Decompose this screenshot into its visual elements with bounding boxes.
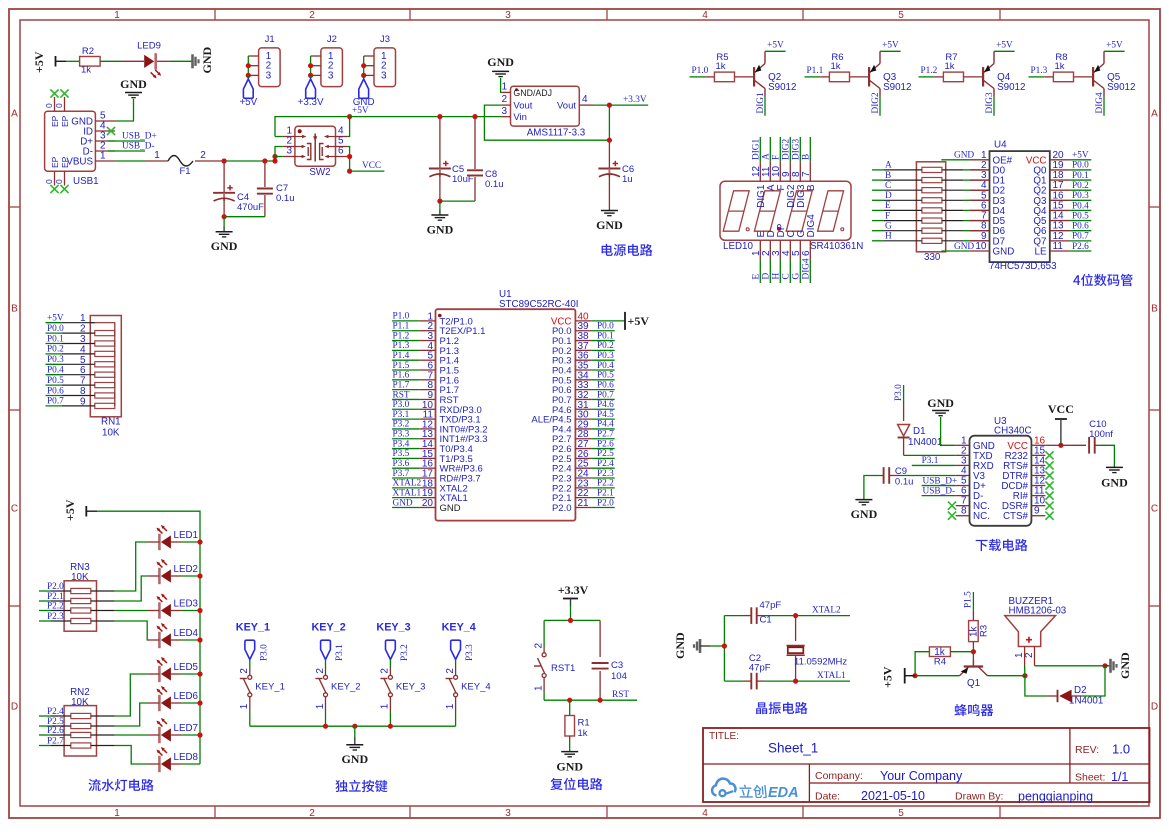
svg-text:P0.3: P0.3: [597, 351, 614, 361]
svg-text:Vin: Vin: [513, 112, 527, 123]
wire buzzer pin1 down: [1024, 666, 1026, 676]
svg-text:3: 3: [266, 70, 272, 81]
svg-text:B: B: [885, 171, 891, 181]
svg-text:+5V: +5V: [239, 97, 257, 108]
svg-text:R3: R3: [979, 625, 990, 637]
svg-text:2021-05-10: 2021-05-10: [861, 789, 925, 803]
resistor R8: [1053, 52, 1073, 82]
svg-text:S9012: S9012: [768, 82, 796, 93]
wire J2 pins to flag: [308, 56, 313, 79]
capacitor C8 (0.1u): [467, 117, 504, 202]
svg-text:J2: J2: [327, 34, 337, 45]
U1 right pin names: [531, 316, 571, 514]
net label P1.0 and wire: [690, 66, 709, 77]
wire ground to U3 pin1: [941, 417, 956, 445]
svg-text:P1.5: P1.5: [393, 361, 410, 371]
svg-text:NC.: NC.: [973, 511, 990, 522]
svg-text:1k: 1k: [715, 61, 725, 72]
svg-text:LED8: LED8: [174, 752, 199, 763]
svg-text:10K: 10K: [71, 697, 89, 708]
switch SW2: [283, 126, 348, 166]
svg-text:3: 3: [505, 808, 511, 819]
svg-text:D: D: [762, 273, 772, 280]
buzzer BUZZER1 HMB1206-03: [1005, 616, 1056, 666]
svg-text:USB_D-: USB_D-: [923, 486, 956, 496]
RN1 wires and net labels: [46, 313, 95, 407]
latch U4 74HC573D: [970, 151, 1070, 262]
MCU U1 STC89C52RC-40I: [420, 309, 591, 520]
svg-text:F1: F1: [179, 166, 190, 177]
svg-text:11.0592MHz: 11.0592MHz: [794, 657, 847, 668]
LED10 bottom pin stubs: [760, 240, 810, 259]
port flag +3.3V: [298, 79, 324, 108]
wire F1 to SW2 and caps: [195, 160, 224, 162]
svg-text:P2.3: P2.3: [47, 612, 64, 622]
caption crystal circuit: [756, 702, 807, 714]
svg-text:GND: GND: [954, 242, 974, 252]
title block: [703, 728, 1150, 802]
resistor R3: [969, 621, 990, 642]
svg-text:GND: GND: [993, 246, 1015, 257]
svg-text:HMB1206-03: HMB1206-03: [1009, 606, 1067, 617]
svg-text:DIG1: DIG1: [756, 92, 766, 114]
wire KEY_2 to ground bus: [325, 697, 327, 711]
svg-text:0.1u: 0.1u: [276, 193, 295, 204]
svg-text:2: 2: [315, 668, 326, 674]
svg-text:GND: GND: [1101, 476, 1128, 490]
svg-text:1/1: 1/1: [1111, 770, 1128, 784]
transistor Q1 (PNP horizontal): [960, 652, 988, 676]
wire LED1 cathode: [148, 541, 159, 543]
RST rail wire: [544, 699, 637, 701]
svg-text:6: 6: [338, 146, 344, 157]
svg-text:B: B: [806, 184, 817, 191]
svg-text:+5V: +5V: [63, 499, 77, 521]
svg-text:7: 7: [801, 171, 812, 177]
svg-text:Vout: Vout: [557, 101, 576, 112]
svg-text:LED9: LED9: [137, 41, 161, 52]
svg-text:8: 8: [80, 386, 86, 397]
RN2 right wires to LEDs: [91, 674, 148, 764]
transistor Q4 (S9012 PNP): [983, 51, 1015, 116]
svg-text:GND: GND: [927, 396, 954, 410]
refdes Q4: [997, 72, 1025, 93]
svg-text:+5V: +5V: [1106, 41, 1123, 51]
resistor R5: [714, 52, 734, 82]
svg-text:5: 5: [898, 10, 904, 21]
junction +3.3V top: [568, 618, 573, 623]
svg-text:P2.1: P2.1: [597, 488, 614, 498]
IC U3 CH340C: [956, 436, 1046, 526]
junction C5 at +5V rail: [437, 114, 442, 119]
ground flag above U3: [927, 396, 954, 416]
svg-text:P3.3: P3.3: [465, 644, 475, 661]
svg-text:D2: D2: [1074, 685, 1087, 696]
svg-text:USB_D+: USB_D+: [923, 476, 958, 486]
junction KEY_3 bus: [388, 724, 393, 729]
svg-text:GND: GND: [211, 239, 238, 253]
wire USB1 GND pin to ground: [115, 99, 134, 121]
svg-text:REV:: REV:: [1075, 744, 1099, 756]
svg-text:P1.0: P1.0: [393, 312, 410, 322]
svg-text:+5V: +5V: [47, 314, 64, 324]
svg-text:E: E: [752, 274, 762, 280]
header J1: [248, 34, 280, 87]
caption download circuit: [976, 539, 1028, 551]
svg-text:Drawn By:: Drawn By:: [955, 791, 1003, 803]
svg-text:20: 20: [422, 498, 434, 509]
ground flag above AMS1117: [487, 55, 514, 77]
svg-text:P2.0: P2.0: [47, 582, 64, 592]
svg-text:P3.1: P3.1: [393, 410, 410, 420]
svg-text:D1: D1: [913, 426, 926, 437]
330 left wires with labels A-H: [872, 161, 922, 242]
USB1 EP pins top: [44, 89, 70, 127]
svg-text:D: D: [11, 702, 18, 713]
svg-text:+5V: +5V: [882, 41, 899, 51]
svg-text:P0.2: P0.2: [47, 345, 64, 355]
svg-text:C: C: [782, 273, 792, 279]
svg-text:3: 3: [501, 106, 507, 117]
svg-text:GND: GND: [427, 223, 454, 237]
svg-text:A: A: [762, 153, 772, 160]
svg-text:XTAL1: XTAL1: [393, 488, 422, 498]
junction C8 at +5V rail: [472, 114, 477, 119]
svg-text:21: 21: [578, 498, 590, 509]
svg-text:LED6: LED6: [174, 691, 199, 702]
caption flowing LED: [88, 779, 153, 791]
no-connect X on U3 pin7: [948, 502, 956, 510]
svg-text:P1.0: P1.0: [692, 66, 709, 76]
USB1 pin names: [66, 117, 93, 168]
wire to resistor R6: [820, 76, 829, 78]
svg-text:P3.4: P3.4: [393, 439, 410, 449]
svg-text:Q1: Q1: [967, 678, 980, 689]
svg-text:3: 3: [381, 70, 387, 81]
ground under C6: [596, 211, 623, 233]
capacitor C6 (1u): [598, 140, 634, 210]
svg-text:XTAL2: XTAL2: [812, 606, 841, 616]
svg-text:+5V: +5V: [767, 41, 784, 51]
junction R3-R4 node: [971, 649, 976, 654]
refdes Q3: [883, 72, 911, 93]
svg-text:GND: GND: [954, 151, 974, 161]
LED10 top pin numbers: [751, 165, 812, 177]
resistor R7: [943, 52, 963, 82]
svg-text:P0.5: P0.5: [1072, 211, 1089, 221]
no-connect X marks on U3 right pins: [1045, 451, 1053, 520]
wire LED8 cathode: [148, 763, 159, 765]
svg-text:U4: U4: [994, 140, 1007, 151]
svg-text:P3.2: P3.2: [393, 420, 410, 430]
wire P3.0 to D1: [903, 402, 905, 421]
svg-text:P0.4: P0.4: [47, 366, 64, 376]
junction XTAL2: [793, 613, 798, 618]
svg-text:VCC: VCC: [1048, 402, 1074, 416]
port flag KEY_2 / P3.1: [321, 640, 345, 661]
svg-text:Company:: Company:: [815, 770, 863, 782]
svg-text:10K: 10K: [71, 572, 89, 583]
svg-text:GND/ADJ: GND/ADJ: [513, 88, 552, 98]
svg-text:STC89C52RC-40I: STC89C52RC-40I: [499, 299, 579, 310]
LED10 bottom pin names: [756, 214, 817, 238]
junction crystal gnd: [722, 643, 727, 648]
svg-text:SW2: SW2: [309, 167, 330, 178]
LED10 bottom wires: [760, 260, 810, 284]
svg-text:KEY_1: KEY_1: [236, 622, 270, 634]
svg-text:DIG4: DIG4: [1095, 92, 1105, 114]
svg-text:2: 2: [1024, 652, 1035, 658]
svg-text:2: 2: [309, 10, 315, 21]
svg-text:LED1: LED1: [174, 530, 199, 541]
svg-text:P0.3: P0.3: [47, 355, 64, 365]
svg-text:Your Company: Your Company: [880, 769, 963, 783]
svg-text:LED5: LED5: [174, 662, 199, 673]
svg-text:1: 1: [445, 703, 456, 709]
junction VCC node: [1058, 443, 1063, 448]
svg-text:8: 8: [961, 506, 967, 517]
transistor Q5 (S9012 PNP): [1093, 51, 1125, 116]
svg-text:10K: 10K: [102, 428, 120, 439]
svg-text:DIG3: DIG3: [985, 92, 995, 114]
svg-text:6: 6: [80, 365, 86, 376]
crystal X1 11.0592MHz: [787, 616, 805, 682]
svg-text:R2: R2: [82, 46, 94, 57]
wire C9 to U3 V3: [889, 474, 899, 476]
ground under key bus: [341, 726, 368, 766]
svg-text:GND: GND: [393, 498, 413, 508]
wire SW2 pin2 to VBUS rail: [275, 147, 283, 157]
svg-text:P1.4: P1.4: [393, 351, 410, 361]
switch KEY_3: [380, 668, 393, 710]
svg-text:P0.2: P0.2: [597, 341, 614, 351]
ground under R1: [556, 752, 583, 774]
power flag +5V at U1 pin 40: [591, 312, 649, 330]
resistor R1: [565, 700, 590, 751]
junction pin4 vout: [607, 103, 612, 108]
svg-text:P3.1: P3.1: [922, 456, 939, 466]
wire LED8 to bus: [171, 763, 181, 765]
wire C8 bottom to C5 bottom: [440, 200, 475, 202]
wire LED3 to bus: [171, 610, 181, 612]
svg-text:J1: J1: [265, 34, 275, 45]
svg-text:P1.5: P1.5: [964, 591, 974, 608]
svg-text:P0.4: P0.4: [597, 361, 614, 371]
svg-text:H: H: [772, 273, 782, 280]
junction at C7: [262, 158, 267, 163]
wire pin4 Vout to +3.3V: [593, 104, 648, 106]
svg-text:GND: GND: [200, 47, 214, 74]
junction KEY_2 bus: [323, 724, 328, 729]
svg-text:B: B: [802, 154, 812, 160]
svg-text:4: 4: [702, 10, 708, 21]
svg-text:DIG3: DIG3: [792, 138, 802, 160]
U4 right pin numbers: [1053, 150, 1065, 252]
svg-text:P0.1: P0.1: [1072, 171, 1089, 181]
svg-text:1: 1: [380, 703, 391, 709]
svg-text:GND: GND: [673, 632, 687, 659]
LED LED4: [156, 623, 198, 648]
svg-text:0.1u: 0.1u: [895, 477, 914, 488]
wire C2 to XTAL1: [757, 680, 764, 682]
caption power circuit: [602, 244, 653, 256]
U4 left pin numbers: [975, 150, 987, 252]
svg-text:P1.1: P1.1: [393, 322, 410, 332]
wire VCC out: [350, 170, 385, 172]
svg-text:1k: 1k: [830, 61, 840, 72]
capacitor C1 (47pF): [751, 600, 781, 626]
svg-text:0.1u: 0.1u: [485, 179, 504, 190]
resistor network RN 330: [916, 162, 945, 252]
svg-text:C: C: [1151, 504, 1158, 515]
wire +3.3V to RC node: [570, 606, 572, 620]
LED LED8: [156, 747, 198, 772]
wire buzzer node to D2: [1025, 676, 1048, 696]
wire +5V to LED bus: [97, 511, 200, 764]
svg-text:E: E: [885, 201, 891, 211]
svg-text:9: 9: [1034, 506, 1040, 517]
caption reset circuit: [550, 778, 602, 790]
svg-text:47pF: 47pF: [760, 600, 782, 611]
svg-text:P2.5: P2.5: [597, 449, 614, 459]
capacitor C5 (10uF): [429, 117, 474, 202]
net label P3.1 and wire RXD: [912, 456, 956, 466]
junction XTAL1: [793, 679, 798, 684]
wire flag to switch KEY_2: [325, 660, 327, 668]
LED10 top pin names: [756, 184, 817, 208]
EasyEDA logo: [712, 779, 799, 801]
U3 left pin numbers: [961, 435, 967, 516]
svg-text:1k: 1k: [1054, 61, 1064, 72]
svg-text:1: 1: [114, 10, 120, 21]
caption 4-digit display: [1073, 274, 1132, 286]
svg-text:KEY_2: KEY_2: [331, 682, 361, 693]
wire SW2 pins5,6 to VCC rail: [348, 147, 350, 172]
switch KEY_2: [315, 668, 328, 710]
junction LED5 bus: [197, 671, 202, 676]
svg-text:KEY_4: KEY_4: [442, 622, 476, 634]
svg-text:R1: R1: [578, 718, 590, 729]
svg-text:D: D: [1151, 702, 1158, 713]
svg-text:P0.6: P0.6: [47, 386, 64, 396]
U4 right wires and net labels: [1070, 151, 1091, 252]
no-connect X on USB1 ID pin: [107, 127, 115, 135]
svg-text:LED7: LED7: [174, 723, 199, 734]
wire LED3 cathode: [148, 610, 159, 612]
svg-text:KEY_1: KEY_1: [255, 682, 285, 693]
net label USB_D+ and wire: [108, 132, 157, 142]
display LED10 (SR410361N): [720, 181, 851, 240]
wire LED7 cathode: [148, 734, 159, 736]
svg-text:GND: GND: [851, 507, 878, 521]
svg-text:P2.4: P2.4: [47, 707, 64, 717]
330 right wires to U4: [942, 170, 990, 241]
svg-text:USB1: USB1: [73, 176, 99, 187]
no-connect X on U3 pin8: [948, 512, 956, 520]
LED10 bottom net labels E D H C G DIG4: [752, 258, 812, 280]
capacitor C7 (0.1u): [257, 161, 295, 217]
svg-text:2: 2: [309, 808, 315, 819]
svg-text:LED2: LED2: [174, 564, 199, 575]
svg-text:1: 1: [533, 685, 544, 691]
RN3 left wires and net labels: [39, 582, 71, 622]
svg-text:P2.0: P2.0: [597, 498, 614, 508]
capacitor C2 (47pF): [749, 653, 771, 689]
svg-text:+3.3V: +3.3V: [623, 95, 647, 105]
switch KEY_1: [239, 668, 252, 710]
svg-text:DIG1: DIG1: [752, 138, 762, 160]
ground under C10: [1101, 466, 1128, 490]
svg-text:P0.1: P0.1: [597, 331, 614, 341]
U4 left pin names: [993, 155, 1015, 257]
svg-text:3: 3: [328, 70, 334, 81]
svg-text:P1.7: P1.7: [393, 380, 410, 390]
svg-text:KEY_4: KEY_4: [461, 682, 491, 693]
wire R2 to LED9: [100, 60, 121, 62]
svg-text:GND: GND: [1118, 652, 1132, 679]
USB1 EP pins bottom: [44, 156, 70, 193]
svg-text:P0.5: P0.5: [47, 376, 64, 386]
svg-text:0: 0: [44, 103, 54, 108]
wire J3 pins to flag: [361, 56, 366, 79]
port flag KEY_4 / P3.3: [451, 640, 475, 661]
wire J1 pins to flag: [246, 56, 251, 79]
wire KEY_3 to ground bus: [389, 697, 391, 711]
svg-text:P3.5: P3.5: [393, 449, 410, 459]
svg-text:GND: GND: [341, 752, 368, 766]
wire VCC to C10: [1061, 444, 1086, 446]
wire R5 to Q2 base: [735, 76, 755, 78]
svg-text:P3.0: P3.0: [393, 400, 410, 410]
svg-text:P2.6: P2.6: [597, 439, 614, 449]
wire +5V to Q1 emitter: [915, 675, 959, 677]
LED10 top net labels DIG1 A F DIG2 DIG3 B: [752, 138, 812, 160]
svg-text:5: 5: [80, 355, 86, 366]
USB connector USB1: [45, 111, 115, 171]
net label P1.5 and wire: [964, 591, 974, 611]
wire R4 to +5V bus: [915, 652, 929, 676]
svg-text:F: F: [772, 155, 782, 160]
svg-text:4: 4: [582, 94, 588, 105]
svg-text:P2.3: P2.3: [597, 469, 614, 479]
wire C9 left to ground: [864, 475, 884, 498]
svg-text:5: 5: [898, 808, 904, 819]
svg-text:2: 2: [239, 668, 250, 674]
svg-text:3: 3: [505, 10, 511, 21]
svg-text:7: 7: [80, 376, 86, 387]
U3 right pin numbers: [1034, 435, 1046, 516]
svg-text:CTS#: CTS#: [1003, 511, 1029, 522]
ground under C9: [851, 498, 878, 521]
svg-text:GND: GND: [353, 97, 375, 108]
port flag GND: [353, 79, 375, 108]
svg-text:P0.2: P0.2: [1072, 181, 1089, 191]
wire bottom to C2: [724, 680, 744, 682]
svg-text:1: 1: [315, 703, 326, 709]
wire Q1 collector to buzzer: [988, 675, 1025, 677]
svg-text:P1.1: P1.1: [807, 66, 824, 76]
regulator U2 AMS1117-3.3: [501, 86, 593, 126]
U1 left pin numbers: [422, 311, 434, 509]
resistor network RN3 10K: [64, 581, 96, 631]
junction +5V bus: [913, 673, 918, 678]
diode D2 1N4001: [1048, 690, 1082, 703]
svg-text:A: A: [11, 109, 18, 120]
svg-text:P0.4: P0.4: [1072, 201, 1089, 211]
wire VBUS to fuse F1: [115, 160, 145, 162]
RN3 right wires to LEDs: [91, 542, 148, 640]
ground flag above USB1: [120, 77, 147, 98]
